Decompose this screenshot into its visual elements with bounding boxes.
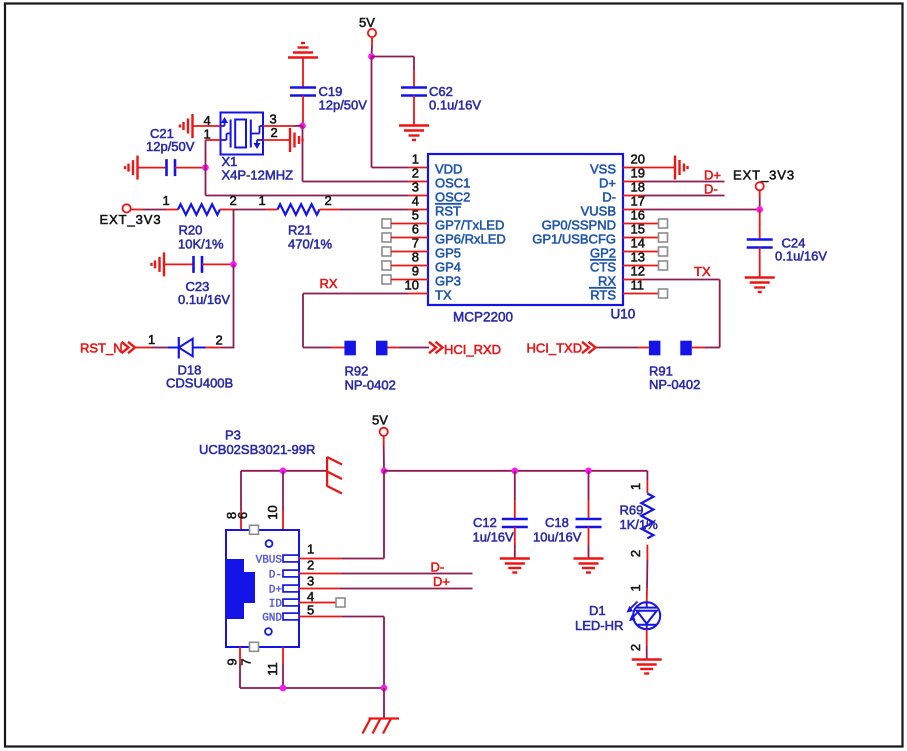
- no-connect square pin 16: [659, 219, 668, 228]
- wire VSS pin 20 to ground: [623, 167, 675, 169]
- svg-text:1: 1: [148, 332, 155, 347]
- node pin11 junction: [280, 685, 287, 692]
- wire D- pin 2: [299, 573, 341, 575]
- svg-text:GP6/RxLED: GP6/RxLED: [435, 232, 506, 247]
- svg-text:EXT_3V3: EXT_3V3: [733, 168, 795, 183]
- wire P3 bottom stubs to ground: [239, 647, 241, 664]
- svg-text:10: 10: [265, 505, 280, 519]
- wire R20 to R21 node: [220, 209, 234, 211]
- wire stub pin 11: [623, 293, 659, 295]
- pin 1 stub P3: [283, 555, 299, 562]
- svg-text:D-: D-: [704, 182, 718, 197]
- wire junction to OSC1 pin 2: [302, 126, 304, 182]
- no-connect square pin 6: [382, 233, 391, 242]
- svg-text:1: 1: [163, 193, 170, 208]
- svg-text:NP-0402: NP-0402: [649, 377, 700, 392]
- svg-text:GP7/TxLED: GP7/TxLED: [435, 218, 504, 233]
- wire D+ pin 19: [623, 181, 643, 183]
- svg-text:2: 2: [628, 644, 643, 651]
- wire rail to R69: [646, 471, 648, 480]
- svg-text:12p/50V: 12p/50V: [146, 139, 195, 154]
- wire stub pin 13: [623, 265, 659, 267]
- no-connect square pin 9: [382, 275, 391, 284]
- no-connect square pin 13: [659, 261, 668, 270]
- svg-text:5V: 5V: [372, 413, 388, 428]
- wire EXT_3V3 to R20: [131, 209, 143, 211]
- node C18 junction: [585, 468, 592, 475]
- svg-text:GP2: GP2: [590, 246, 616, 261]
- capacitor C23: [192, 256, 195, 273]
- svg-text:2: 2: [271, 125, 278, 140]
- node 5V rail junction: [381, 468, 388, 475]
- ground below C24: [745, 276, 775, 278]
- wire X1 pin 3 to junction: [263, 125, 294, 127]
- svg-text:HCI_TXD: HCI_TXD: [527, 341, 583, 356]
- power terminal EXT_3V3 (left): [123, 204, 131, 212]
- svg-text:TX: TX: [694, 264, 711, 279]
- connector P3 body: [226, 530, 299, 647]
- mount square bottom: [250, 642, 259, 651]
- svg-text:R69: R69: [620, 503, 644, 518]
- svg-text:D-: D-: [431, 560, 445, 575]
- chassis ground (bottom): [369, 717, 400, 719]
- wire RX net to R92: [303, 347, 331, 349]
- svg-text:3: 3: [307, 574, 314, 589]
- resistor R20: [178, 204, 220, 215]
- ground below C12: [500, 557, 530, 559]
- svg-text:CTS: CTS: [590, 260, 616, 275]
- wire TX net to R91: [705, 347, 720, 349]
- overline RST: [435, 203, 462, 205]
- svg-text:2: 2: [325, 193, 332, 208]
- wire stub pin 15: [623, 237, 659, 239]
- wire R91 to HCI_TXD: [638, 347, 649, 349]
- wire D+ pin 3: [299, 588, 340, 590]
- wire 5V junction to VDD pin 1: [371, 57, 373, 168]
- svg-text:2: 2: [216, 333, 223, 348]
- svg-text:10K/1%: 10K/1%: [178, 237, 224, 252]
- no-connect square pin 11: [659, 289, 668, 298]
- svg-text:20: 20: [631, 151, 645, 166]
- svg-text:VDD: VDD: [435, 162, 462, 177]
- node C12 junction: [512, 468, 519, 475]
- wire RST node down to D18: [233, 264, 235, 347]
- wire ground to C23: [164, 263, 194, 265]
- wire stub pin 9: [391, 279, 428, 281]
- wire D1 to ground: [646, 629, 648, 646]
- svg-text:0.1u/16V: 0.1u/16V: [775, 249, 827, 264]
- svg-text:0.1u/16V: 0.1u/16V: [429, 98, 481, 113]
- svg-text:RX: RX: [320, 276, 338, 291]
- svg-text:6: 6: [235, 512, 250, 519]
- wire stub pin 8: [391, 265, 428, 267]
- svg-text:2: 2: [412, 165, 419, 180]
- resistor R21: [278, 204, 320, 215]
- svg-text:ID: ID: [269, 599, 283, 611]
- node OSC1/XTAL3 junction: [299, 123, 306, 130]
- svg-text:GP1/USBCFG: GP1/USBCFG: [532, 232, 616, 247]
- resistor R92 (NP pads): [344, 341, 356, 356]
- wire RST_N to D18 pin 1: [136, 347, 152, 349]
- wire stub pin 7: [391, 251, 428, 253]
- node 5V junction: [368, 53, 375, 60]
- net label HCI_TXD: [582, 342, 589, 353]
- no-connect square pin 14: [659, 247, 668, 256]
- wire X1 pin 4 to ground: [193, 125, 221, 127]
- wire C21 to junction: [175, 167, 206, 169]
- capacitor C19: [290, 86, 316, 89]
- capacitor C62: [401, 86, 427, 89]
- svg-text:1: 1: [307, 542, 314, 557]
- wire R69 to D1: [646, 545, 648, 560]
- wire D18 pin 2 to RST node: [206, 347, 222, 349]
- svg-text:D-: D-: [269, 570, 282, 582]
- svg-text:0.1u/16V: 0.1u/16V: [178, 292, 230, 307]
- svg-text:9: 9: [225, 658, 240, 665]
- pin 2 stub P3: [283, 570, 299, 577]
- svg-text:RTS: RTS: [590, 288, 616, 303]
- svg-text:GP4: GP4: [435, 260, 461, 275]
- wire C23 to RST node: [202, 263, 234, 265]
- svg-text:3: 3: [412, 179, 419, 194]
- svg-text:1: 1: [628, 483, 643, 490]
- wire VBUS pin 1 to 5V rail: [299, 558, 342, 560]
- diode D18: [168, 347, 179, 349]
- svg-text:470/1%: 470/1%: [288, 237, 333, 252]
- svg-text:D+: D+: [599, 176, 616, 191]
- svg-text:1u/16V: 1u/16V: [473, 530, 515, 545]
- wire X1 pin 2 to ground: [263, 139, 290, 141]
- ground left of C21: [136, 156, 138, 180]
- wire TX pin 10 to RX net: [408, 293, 428, 295]
- resistor R69: [641, 494, 653, 539]
- ground right of X1 pin 2: [289, 128, 291, 152]
- pin 4 stub P3: [283, 599, 299, 606]
- svg-text:4: 4: [412, 193, 419, 208]
- wire ground to C19: [302, 58, 304, 88]
- svg-text:RST_N: RST_N: [80, 341, 123, 356]
- capacitor C18: [576, 518, 602, 521]
- ground left of C23: [163, 252, 165, 276]
- wire stub pin 16: [623, 223, 659, 225]
- no-connect square pin 15: [659, 233, 668, 242]
- no-connect square pin 8: [382, 261, 391, 270]
- svg-text:D+: D+: [704, 168, 721, 183]
- wire C18 to ground: [588, 527, 590, 545]
- wire 5V junction to C62: [372, 56, 415, 58]
- node pin10 junction: [280, 468, 287, 475]
- wire C19 to OSC1 node: [302, 96, 304, 126]
- svg-text:UCB02SB3021-99R: UCB02SB3021-99R: [199, 442, 315, 457]
- overline RTS: [589, 287, 616, 289]
- capacitor C12: [502, 518, 528, 521]
- svg-text:12p/50V: 12p/50V: [319, 98, 368, 113]
- no-connect square ID: [336, 598, 345, 607]
- node C23/RST junction: [230, 261, 237, 268]
- svg-text:NP-0402: NP-0402: [345, 378, 396, 393]
- net label HCI_RXD: [429, 342, 436, 353]
- overline CTS: [590, 259, 616, 261]
- pin 3 stub P3: [283, 585, 299, 592]
- svg-text:R20: R20: [179, 223, 203, 238]
- no-connect square pin 5: [382, 219, 391, 228]
- svg-text:U10: U10: [611, 307, 636, 322]
- svg-text:EXT_3V3: EXT_3V3: [100, 212, 162, 227]
- svg-text:10u/16V: 10u/16V: [533, 530, 582, 545]
- mount square top: [250, 525, 259, 534]
- wire GND node to chassis ground: [383, 688, 385, 719]
- svg-text:RST: RST: [435, 204, 461, 219]
- wire 5V terminal to rail: [383, 436, 385, 446]
- svg-text:VSS: VSS: [590, 162, 616, 177]
- svg-text:D+: D+: [433, 574, 450, 589]
- svg-text:5V: 5V: [359, 15, 375, 30]
- svg-text:5: 5: [412, 207, 419, 222]
- node VUSB junction: [756, 206, 763, 213]
- svg-text:1: 1: [412, 151, 419, 166]
- svg-text:5: 5: [307, 603, 314, 618]
- wire EXT_3V3 terminal down: [759, 190, 761, 198]
- svg-text:2: 2: [307, 558, 314, 573]
- capacitor C24: [747, 238, 773, 241]
- pin 5 stub P3: [283, 613, 299, 620]
- wire R21 to RST pin 4: [320, 209, 341, 211]
- svg-text:X4P-12MHZ: X4P-12MHZ: [222, 168, 294, 183]
- svg-text:VBUS: VBUS: [256, 555, 283, 567]
- svg-text:LED-HR: LED-HR: [575, 618, 623, 633]
- wire junction up to X1 pin 1: [205, 140, 207, 168]
- svg-text:GND: GND: [262, 613, 282, 625]
- wire RX pin 12 to TX net: [623, 279, 643, 281]
- svg-text:OSC1: OSC1: [435, 176, 470, 191]
- svg-text:D-: D-: [602, 190, 616, 205]
- wire RST node down to C23: [233, 210, 235, 265]
- wire junction to OSC2 pin 3: [205, 168, 207, 196]
- wire stub pin 6: [391, 237, 428, 239]
- ground above C19: [288, 56, 318, 58]
- svg-text:2: 2: [628, 550, 643, 557]
- wire GND pin 5: [299, 616, 342, 618]
- wire C62 to ground: [413, 96, 415, 126]
- wire ground to C21: [138, 167, 167, 169]
- node C21/X1 pin1/OSC2 junction: [202, 164, 209, 171]
- svg-text:CDSU400B: CDSU400B: [166, 376, 233, 391]
- svg-text:RX: RX: [598, 274, 616, 289]
- svg-text:C18: C18: [545, 515, 569, 530]
- wire node to C24: [759, 210, 761, 240]
- svg-text:1K/1%: 1K/1%: [620, 517, 659, 532]
- ground right of VSS: [674, 156, 676, 180]
- svg-text:1: 1: [259, 193, 266, 208]
- alignment circle bottom: [265, 628, 272, 635]
- svg-text:GP5: GP5: [435, 246, 461, 261]
- svg-text:2: 2: [230, 193, 237, 208]
- wire C12 to ground: [514, 527, 516, 545]
- chassis ground (top): [326, 457, 328, 487]
- svg-text:D+: D+: [269, 585, 282, 597]
- svg-text:1: 1: [628, 584, 643, 591]
- crystal X1: [221, 113, 264, 155]
- svg-text:OSC2: OSC2: [435, 190, 470, 205]
- ground below D1: [632, 658, 662, 660]
- svg-text:D1: D1: [589, 603, 606, 618]
- svg-text:11: 11: [265, 662, 280, 676]
- wire stub pin 14: [623, 251, 659, 253]
- wire D- pin 18: [623, 195, 643, 197]
- USB plug shape: [227, 559, 255, 619]
- capacitor C21: [165, 159, 168, 176]
- wire R92 to HCI_RXD: [388, 347, 400, 349]
- wire 5V terminal to junction: [371, 37, 373, 46]
- wire P3 top stubs to chassis ground: [241, 470, 327, 472]
- svg-text:GP0/SSPND: GP0/SSPND: [542, 218, 616, 233]
- ground below C62: [399, 124, 429, 126]
- svg-text:GP3: GP3: [435, 274, 461, 289]
- svg-text:HCI_RXD: HCI_RXD: [444, 342, 501, 357]
- svg-text:R92: R92: [345, 364, 369, 379]
- alignment circle top: [266, 540, 273, 547]
- wire rail to C12: [514, 471, 516, 500]
- wire ID pin 4 to no-connect: [299, 602, 336, 604]
- wire 5V rail to R69: [384, 470, 647, 472]
- LED arrows: [629, 602, 638, 611]
- svg-text:MCP2200: MCP2200: [453, 310, 513, 325]
- svg-text:P3: P3: [225, 428, 241, 443]
- node GND junction: [381, 685, 388, 692]
- svg-text:TX: TX: [435, 288, 452, 303]
- svg-text:R21: R21: [288, 223, 312, 238]
- wire VUSB pin 17 to EXT_3V3 node: [623, 209, 643, 211]
- resistor R91 (NP pads): [649, 341, 661, 356]
- ground below C18: [574, 557, 604, 559]
- svg-text:C12: C12: [473, 515, 497, 530]
- op-amp U10 MCP2200 body: [428, 154, 623, 305]
- ground left of X1 pin 4: [191, 114, 193, 138]
- LED D1: [633, 602, 660, 629]
- wire stub pin 5: [391, 223, 428, 225]
- no-connect square pin 7: [382, 247, 391, 256]
- wire rail to C18: [588, 471, 590, 500]
- svg-text:VUSB: VUSB: [581, 204, 616, 219]
- wire C24 to ground: [759, 248, 761, 278]
